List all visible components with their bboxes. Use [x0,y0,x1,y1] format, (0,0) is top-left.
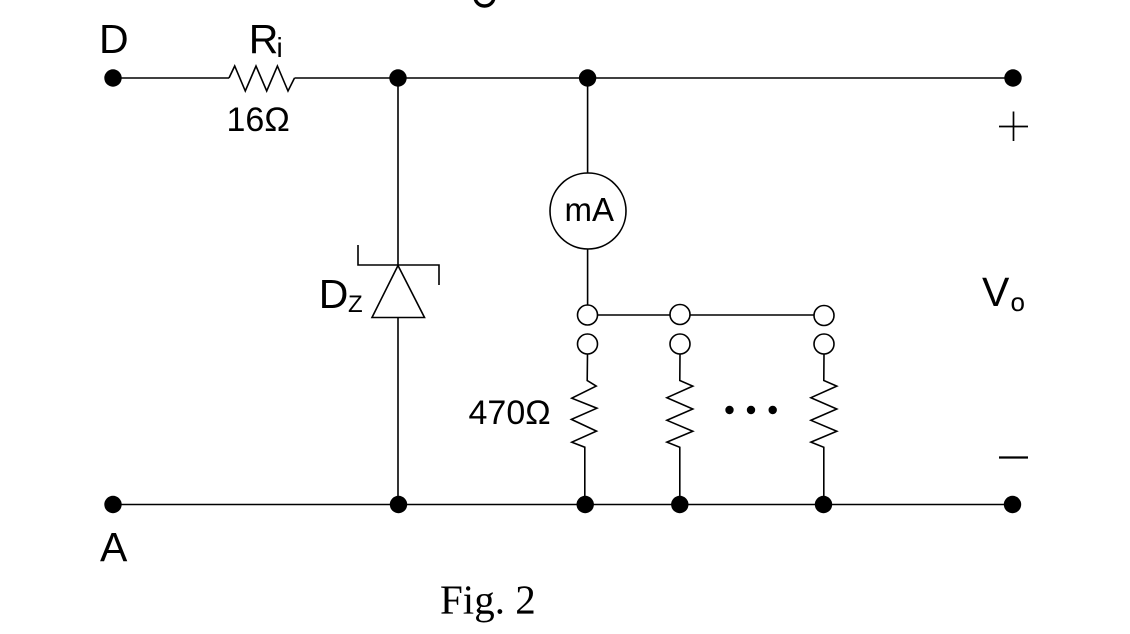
resistor Ri zigzag [229,66,295,91]
svg-text:V: V [982,269,1010,315]
wire: mA meter to socket row [587,249,589,305]
svg-text:470Ω: 470Ω [469,394,551,432]
socket contact upper, column 3 [814,306,834,326]
svg-text:i: i [277,32,283,63]
node: + output terminal [1004,69,1021,86]
node: bottom rail / R3 [815,496,832,513]
wire: socket bus segment 1 [598,314,671,316]
resistor R1 470ohm with leads [571,354,597,505]
minus sign of output [999,456,1028,458]
socket contact lower, column 1 [578,334,598,354]
node: bottom rail / R1 [577,496,594,513]
resistor R3 470ohm with leads [811,354,837,505]
node: bottom rail / zener [390,496,407,513]
ellipsis dot 2 [747,406,755,414]
svg-text:R: R [249,16,279,62]
svg-text:D: D [319,271,349,317]
node: junction top rail / zener [389,69,406,86]
svg-text:Z: Z [348,291,363,318]
wire: socket bus segment 2 [690,314,814,316]
wire: zener branch lower [397,318,399,505]
ammeter U1 circle [550,173,626,249]
wire: top rail left segment (D node to Ri) [113,77,229,79]
socket contact lower, column 2 [670,334,690,354]
socket contact upper, column 2 [670,305,690,325]
wire: mA branch from top rail [587,78,589,173]
ellipsis dot 1 [725,406,733,414]
svg-text:Fig. 2: Fig. 2 [440,577,536,623]
wire: zener branch upper [397,78,399,265]
node: junction top rail / mA branch [579,69,596,86]
node: bottom rail / A terminal [104,496,121,513]
plus sign of output [999,112,1028,142]
cropped descender of letter g (text cut at top edge) [475,0,494,6]
wire: bottom rail (A to - terminal) [113,504,1013,506]
socket contact lower, column 3 [814,334,834,354]
svg-text:A: A [100,524,128,570]
zener diode DZ triangle [372,266,425,318]
wire: top rail right segment (Ri to + terminal) [295,77,1014,79]
ellipsis dot 3 [769,406,777,414]
svg-text:D: D [99,16,129,62]
svg-text:o: o [1011,287,1025,317]
svg-text:16Ω: 16Ω [227,101,290,139]
node D terminal [104,69,121,86]
socket contact upper, column 1 [578,305,598,325]
svg-text:mA: mA [565,191,615,228]
zener diode DZ cathode bar [358,245,439,285]
node: bottom rail / R2 [671,496,688,513]
resistor R2 470ohm with leads [667,354,693,505]
node: - output terminal [1004,496,1021,513]
